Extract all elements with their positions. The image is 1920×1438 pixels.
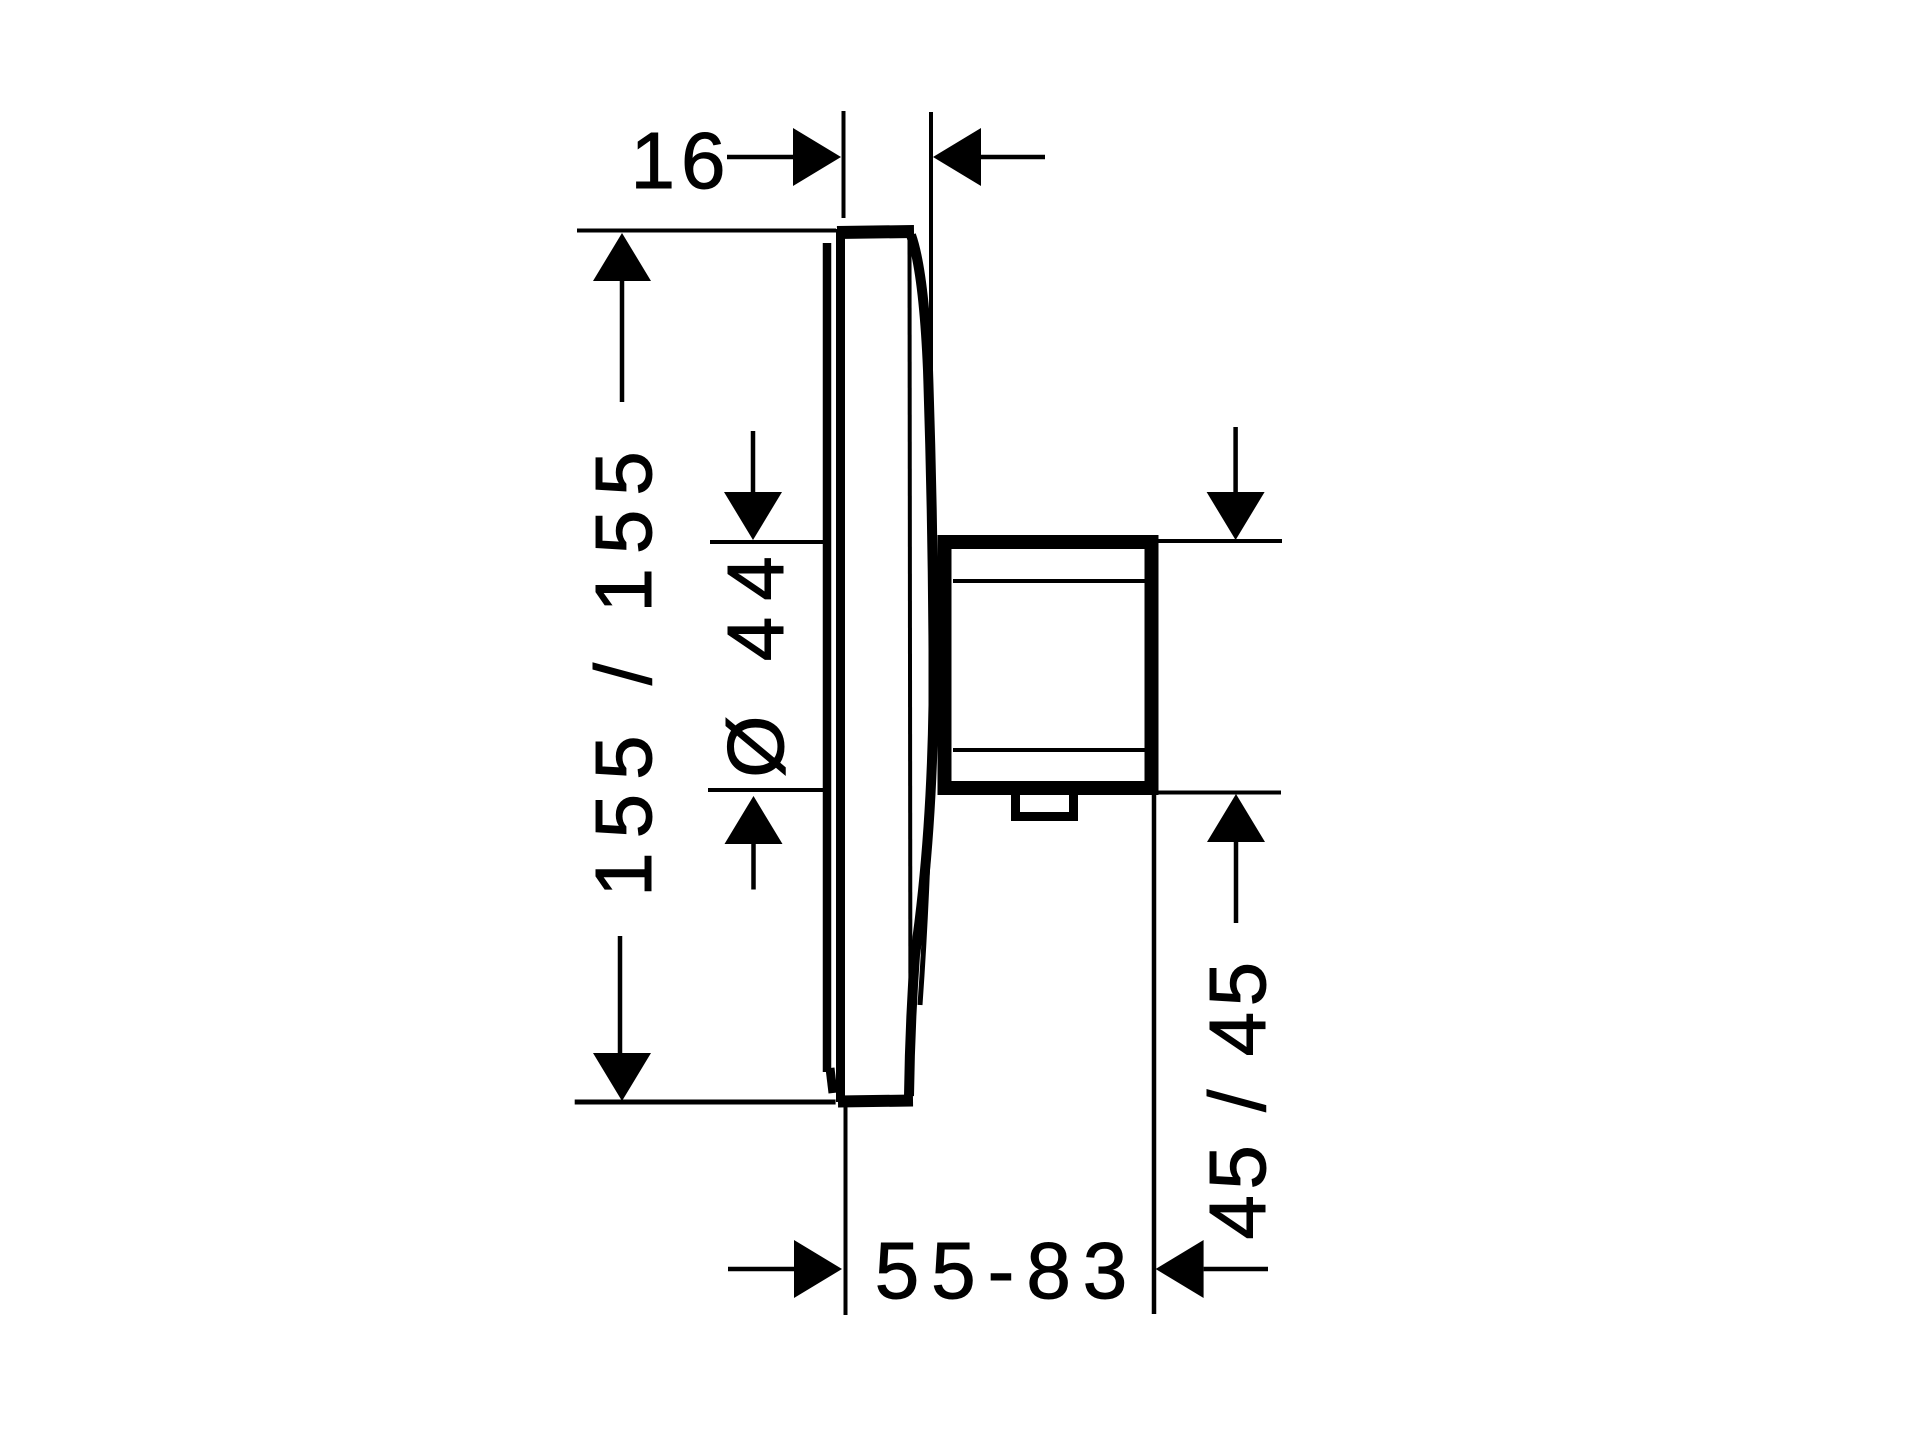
- dim Ø44: lower tail: [751, 844, 756, 890]
- dim 55-83: right extension line: [1152, 790, 1157, 1314]
- svg-text:55-83: 55-83: [875, 1226, 1140, 1315]
- dim 45/45: upper extension line: [1154, 539, 1282, 543]
- escutcheon plate top cap: [837, 232, 914, 233]
- valve body bottom tab: [1016, 795, 1074, 817]
- dim 155/155: up arrowhead: [593, 233, 651, 281]
- escutcheon plate front face line: [836, 229, 845, 1102]
- escutcheon plate right silhouette curve: [909, 235, 934, 1096]
- dim 155/155: top extension line: [577, 229, 836, 233]
- escutcheon plate back rim inner line: [910, 240, 911, 1090]
- dim 45/45: upper tail: [1233, 427, 1238, 493]
- dim 16: right-pointing arrowhead: [793, 128, 841, 186]
- svg-text:16: 16: [631, 116, 732, 205]
- svg-text:Ø 44: Ø 44: [711, 540, 800, 777]
- dim 16: tail line left: [727, 155, 795, 160]
- dim 155/155: bottom extension line: [575, 1100, 836, 1105]
- valve body inner top line: [953, 579, 1145, 583]
- escutcheon plate back rim lower edge: [920, 797, 930, 1005]
- dim Ø44: upper extension line: [710, 540, 823, 544]
- dim 55-83: left extension line: [844, 1107, 848, 1315]
- dim 55-83: right tail: [1204, 1267, 1268, 1272]
- dim Ø44: lower extension line: [708, 788, 823, 792]
- escutcheon plate outer rim edge (front-left silhouette): [823, 243, 832, 1072]
- dim 155/155: down arrowhead: [593, 1053, 651, 1101]
- dim 16: tail line right: [981, 155, 1045, 160]
- dim 45/45: up arrowhead: [1207, 794, 1265, 842]
- dim Ø44: upper tail: [751, 431, 756, 493]
- valve body outline: [945, 542, 1152, 788]
- svg-text:155 / 155: 155 / 155: [579, 437, 668, 897]
- dim 45/45: lower extension line: [1147, 791, 1281, 795]
- dim 55-83: left-pointing arrowhead: [1156, 1240, 1204, 1298]
- escutcheon plate bottom cap: [838, 1101, 913, 1102]
- dim 155/155: upper tail: [620, 281, 625, 402]
- dim 45/45: lower tail: [1234, 842, 1239, 923]
- dim 55-83: right-pointing arrowhead: [794, 1240, 842, 1298]
- valve body inner bottom line: [953, 748, 1145, 752]
- dim 16: extension line at plate back: [929, 112, 933, 538]
- dim 55-83: left tail: [728, 1267, 794, 1272]
- svg-text:45 / 45: 45 / 45: [1193, 956, 1282, 1239]
- dim 16: left-pointing arrowhead: [933, 128, 981, 186]
- dim 45/45: down arrowhead: [1207, 492, 1265, 540]
- dim 16: extension line at plate front face: [842, 111, 846, 218]
- dim 155/155: lower tail: [618, 936, 623, 1053]
- dim Ø44: down arrowhead: [724, 492, 782, 540]
- dim Ø44: up arrowhead: [725, 796, 783, 844]
